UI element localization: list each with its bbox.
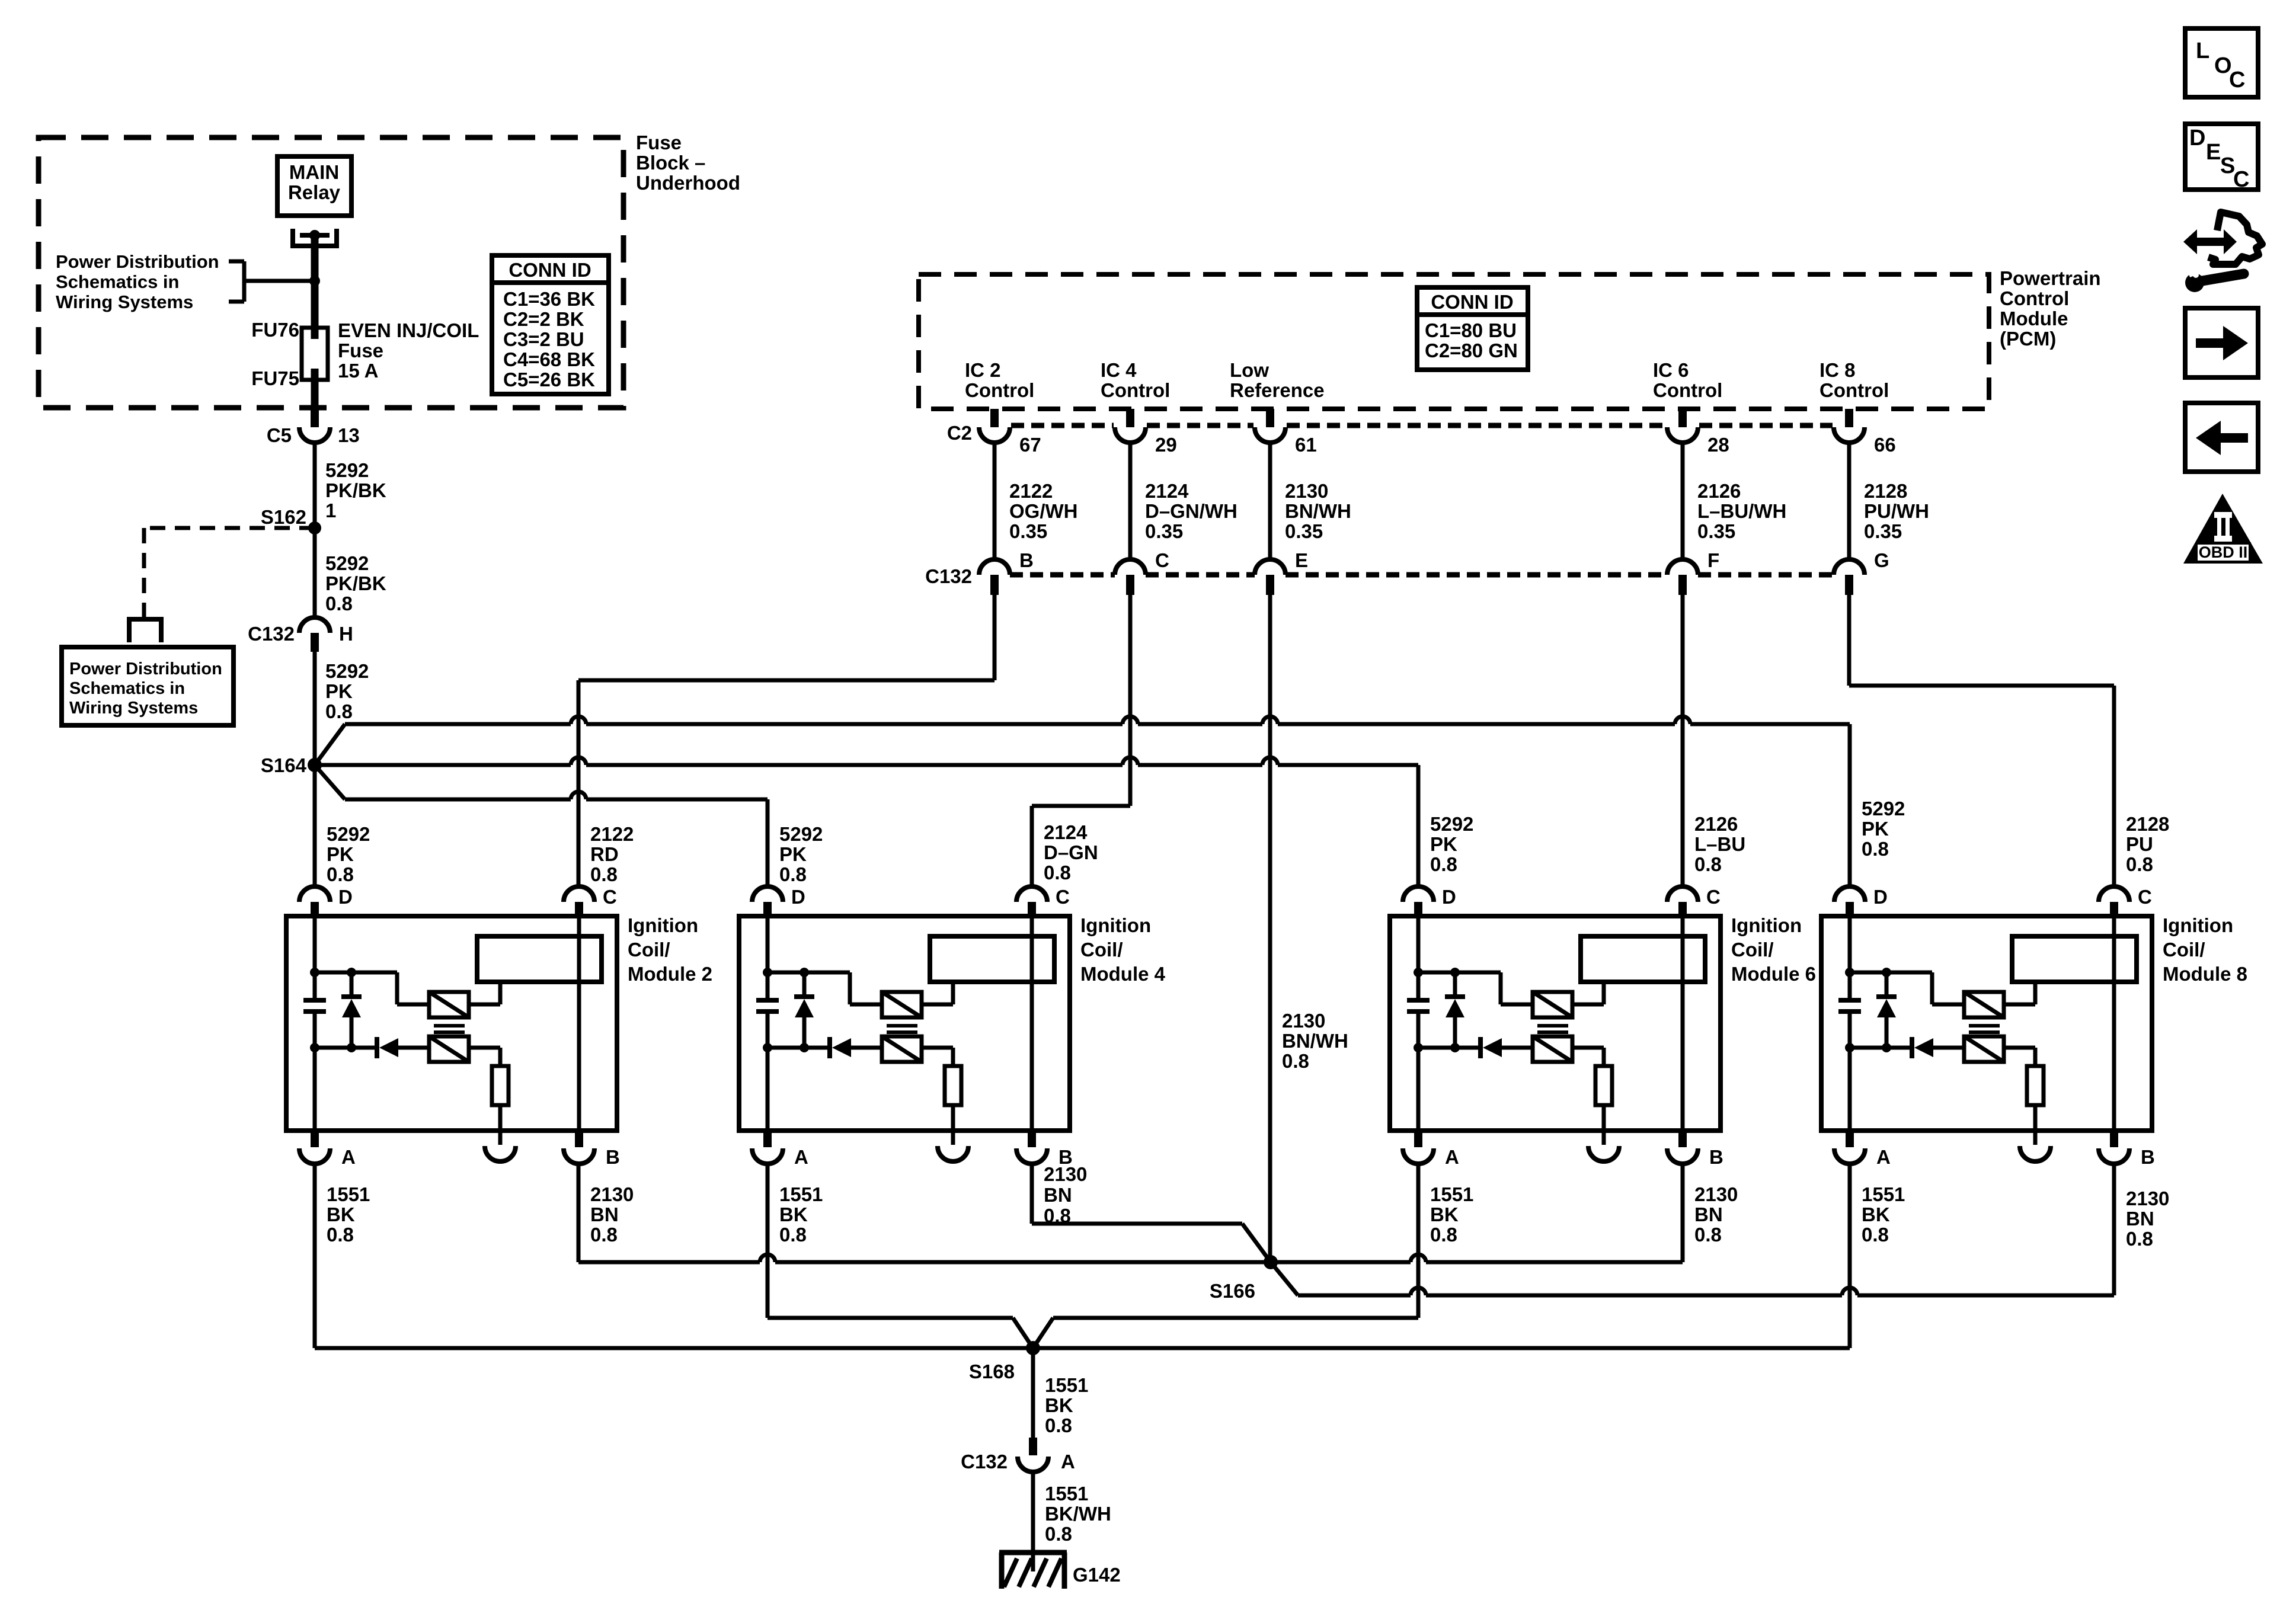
svg-text:0.8: 0.8 [1862, 838, 1889, 860]
svg-text:2126: 2126 [1697, 480, 1741, 502]
svg-text:0.8: 0.8 [325, 593, 353, 614]
wire module6 A to S168 [1033, 1164, 1418, 1348]
powertrain control module (dashed box) [919, 274, 1989, 409]
svg-text:1551: 1551 [327, 1183, 370, 1205]
svg-text:Wiring Systems: Wiring Systems [69, 699, 198, 718]
wire S168 to C132 A [1031, 1348, 1035, 1439]
svg-text:PK: PK [1862, 818, 1889, 840]
module 4 label [1080, 914, 1166, 985]
wire module8 A to S168 [1848, 1164, 1852, 1348]
coupler plates (module 8) [1969, 1026, 2000, 1032]
module 4 pin D connector [752, 886, 783, 918]
resistor tail (module 2) [498, 1105, 503, 1145]
module 8 pin C connector [2099, 886, 2129, 918]
svg-text:Coil/: Coil/ [628, 939, 670, 961]
wire to power distribution bracket [244, 279, 315, 283]
label 2128 PU 0.8 [2126, 813, 2169, 875]
svg-text:0.35: 0.35 [1145, 520, 1183, 542]
module 8 pin B connector [2099, 1131, 2129, 1164]
module 8 mid pin connector [2020, 1146, 2051, 1161]
module 2 pin B connector [564, 1131, 594, 1164]
wire module2 A to S168 [313, 1164, 317, 1348]
svg-text:BN: BN [1694, 1204, 1723, 1225]
svg-text:C2=2 BK: C2=2 BK [503, 308, 584, 330]
svg-text:Block –: Block – [636, 152, 705, 174]
svg-text:0.8: 0.8 [2126, 1228, 2153, 1250]
wire node2 with diode (module 8) [1850, 1037, 1964, 1058]
svg-text:B: B [2141, 1146, 2155, 1168]
label pin A (module 2) [341, 1146, 356, 1168]
wire 2126 L-BU/WH 0.35 [1681, 443, 1685, 559]
svg-text:2130: 2130 [1285, 480, 1328, 502]
svg-text:5292: 5292 [325, 552, 369, 574]
label C132 (H) [248, 623, 295, 645]
label pin A (module 6) [1445, 1146, 1459, 1168]
svg-text:FU75: FU75 [251, 367, 299, 389]
wire S166 to module6 B [1271, 1164, 1683, 1262]
label pin 28 [1707, 434, 1729, 456]
module 2 internal wire C-B [577, 918, 581, 1131]
label 2126 L-BU 0.8 [1694, 813, 1745, 875]
wire S166 to module8 B [1271, 1164, 2114, 1295]
svg-text:C4=68 BK: C4=68 BK [503, 348, 595, 370]
svg-text:0.8: 0.8 [327, 1224, 354, 1246]
module box Ignition Coil/Module 6 [1390, 916, 1721, 1131]
fuse value label [338, 319, 479, 382]
svg-text:0.8: 0.8 [1045, 1414, 1072, 1436]
module 4 internal wire D-A [766, 918, 770, 1131]
label 1551 BK 0.8 (module8) [1862, 1183, 1905, 1246]
svg-text:C: C [2138, 886, 2152, 908]
module 6 pin B connector [1667, 1131, 1698, 1164]
svg-text:(PCM): (PCM) [2000, 328, 2056, 350]
connector C2 pin 28 [1667, 409, 1698, 443]
svg-text:A: A [1876, 1146, 1891, 1168]
connector C132 pin C [1115, 559, 1146, 595]
svg-text:2130: 2130 [1044, 1163, 1087, 1185]
svg-text:Coil/: Coil/ [2163, 939, 2205, 961]
svg-text:CONN ID: CONN ID [509, 259, 591, 281]
svg-text:Control: Control [2000, 287, 2069, 309]
wire 2130 BN/WH 0.35 [1268, 443, 1272, 559]
zener diode (module 6) [1445, 972, 1465, 1048]
svg-text:Low: Low [1230, 359, 1269, 381]
svg-text:D–GN/WH: D–GN/WH [1145, 500, 1237, 522]
module box Ignition Coil/Module 8 [1821, 916, 2152, 1131]
svg-text:PU: PU [2126, 833, 2153, 855]
svg-text:1551: 1551 [1430, 1183, 1473, 1205]
svg-text:A: A [341, 1146, 356, 1168]
svg-text:S168: S168 [969, 1361, 1015, 1382]
label 5292 PK 0.8 (module6 D) [1430, 813, 1473, 875]
svg-text:A: A [1061, 1451, 1075, 1473]
connector C5 pin 13 (cup) [299, 427, 330, 443]
label IC 6 Control [1653, 359, 1722, 401]
svg-text:61: 61 [1295, 434, 1317, 456]
svg-text:C: C [603, 886, 617, 908]
svg-text:2122: 2122 [590, 823, 634, 845]
svg-text:Coil/: Coil/ [1080, 939, 1123, 961]
coupler plates (module 2) [434, 1026, 465, 1032]
svg-text:BK: BK [779, 1204, 808, 1225]
module 6 label [1731, 914, 1816, 985]
relay contact dot [309, 230, 320, 241]
svg-text:Wiring Systems: Wiring Systems [56, 292, 193, 312]
wire fuse to fuse block edge [311, 380, 319, 409]
optocoupler lower (module 2) [429, 1036, 469, 1062]
svg-text:BK: BK [1430, 1204, 1459, 1225]
svg-text:MAIN: MAIN [289, 161, 339, 183]
relay contact blade [300, 233, 330, 238]
label 2128 PU/WH 0.35 [1864, 480, 1929, 542]
svg-text:5292: 5292 [779, 823, 823, 845]
svg-text:PU/WH: PU/WH [1864, 500, 1929, 522]
wire optocoupler1 to coil (module 2) [469, 982, 500, 1004]
svg-text:2122: 2122 [1009, 480, 1053, 502]
label G142 [1073, 1564, 1121, 1586]
resistor tail (module 8) [2033, 1105, 2038, 1145]
label 5292 PK/BK 0.8 [325, 552, 386, 614]
svg-text:PK: PK [325, 680, 353, 702]
svg-text:1551: 1551 [1045, 1374, 1088, 1396]
connector C2 pin 29 [1115, 409, 1146, 443]
label S166 [1210, 1280, 1255, 1302]
svg-text:IC 8: IC 8 [1819, 359, 1856, 381]
svg-text:C: C [1706, 886, 1721, 908]
node junction below relay [309, 276, 320, 286]
wire optocoupler2 to resistor (module 8) [2004, 1048, 2035, 1066]
svg-text:C2: C2 [947, 422, 972, 444]
svg-text:1551: 1551 [1045, 1483, 1088, 1505]
label pin B (module 6) [1709, 1146, 1723, 1168]
svg-text:2128: 2128 [2126, 813, 2169, 835]
label pin B (module 4) [1059, 1146, 1073, 1168]
svg-text:0.8: 0.8 [1430, 853, 1457, 875]
module 4 pin A connector [752, 1131, 783, 1164]
label pin H [339, 623, 353, 645]
svg-text:0.8: 0.8 [1694, 1224, 1722, 1246]
svg-text:0.8: 0.8 [1430, 1224, 1457, 1246]
svg-text:0.8: 0.8 [1044, 1205, 1071, 1227]
svg-text:2130: 2130 [1694, 1183, 1738, 1205]
label FU75 [251, 367, 299, 389]
label IC 4 Control [1101, 359, 1170, 401]
connector C132 pin G [1834, 559, 1865, 595]
svg-text:Power Distribution: Power Distribution [56, 251, 219, 272]
optocoupler upper (module 8) [1964, 992, 2004, 1017]
label FU76 [251, 319, 299, 341]
svg-text:Fuse: Fuse [636, 132, 682, 153]
connector row C2 (dashed) [1011, 423, 1833, 428]
svg-text:Module: Module [2000, 308, 2068, 329]
module 4 mid pin connector [938, 1146, 968, 1161]
wire S164 lower branch to module4 pin D [315, 765, 768, 886]
svg-text:B: B [606, 1146, 620, 1168]
svg-text:BN: BN [2126, 1208, 2154, 1230]
svg-text:0.8: 0.8 [1044, 862, 1071, 884]
svg-text:0.8: 0.8 [779, 863, 807, 885]
svg-text:FU76: FU76 [251, 319, 299, 341]
PCM label [2000, 267, 2101, 350]
label 5292 PK 0.8 (upper) [325, 660, 369, 722]
zener diode (module 4) [794, 972, 814, 1048]
svg-text:BK/WH: BK/WH [1045, 1503, 1111, 1525]
svg-text:5292: 5292 [325, 660, 369, 682]
wire S162 to C132 H [313, 528, 317, 617]
label 5292 PK 0.8 (module2 D) [327, 823, 370, 885]
connector C5 stub [311, 408, 319, 427]
zener diode (module 8) [1876, 972, 1897, 1048]
S168 ground bus [315, 1346, 1850, 1350]
svg-text:C132: C132 [248, 623, 295, 645]
power distribution schematics box (left) [62, 647, 234, 725]
label 1551 BK 0.8 (module4) [779, 1183, 823, 1246]
wire node2 with diode (module 4) [768, 1037, 882, 1058]
optocoupler lower (module 6) [1533, 1036, 1572, 1062]
resistor tail (module 4) [951, 1105, 955, 1145]
svg-text:PK: PK [1430, 833, 1457, 855]
resistor tail (module 6) [1602, 1105, 1606, 1145]
label 2130 BN 0.8 (module2) [590, 1183, 634, 1246]
svg-text:5292: 5292 [325, 459, 369, 481]
wire optocoupler1 to coil (module 4) [922, 982, 953, 1004]
label pin D (module 2) [338, 886, 353, 908]
wire module4 B to S166 [1032, 1164, 1271, 1262]
svg-text:BK: BK [327, 1204, 355, 1225]
label pin A (C132) [1061, 1451, 1075, 1473]
icon back arrow box [2185, 403, 2258, 472]
svg-text:H: H [339, 623, 353, 645]
wire node2 with diode (module 6) [1418, 1037, 1533, 1058]
node dots (module 6) [1414, 968, 1460, 1052]
wire low reference (C132 E) to S166 [1268, 595, 1272, 1262]
label 1551 BK 0.8 (module6) [1430, 1183, 1473, 1246]
module 2 mid pin connector [485, 1146, 516, 1161]
module 4 pin B connector [1016, 1131, 1047, 1164]
svg-text:5292: 5292 [1430, 813, 1473, 835]
label C132 (row) [925, 565, 972, 587]
svg-text:PK: PK [779, 843, 807, 865]
svg-text:D: D [1873, 886, 1888, 908]
ignition coil winding (module 4) [930, 936, 1054, 982]
power distribution schematics note (top) [56, 251, 219, 312]
wire optocoupler1 to coil (module 6) [1572, 982, 1604, 1004]
svg-text:Ignition: Ignition [1080, 914, 1151, 936]
svg-text:BN/WH: BN/WH [1285, 500, 1351, 522]
ignition coil winding (module 8) [2012, 936, 2137, 982]
resistor (module 2) [492, 1066, 509, 1105]
wire 2122 OG/WH 0.35 [993, 443, 997, 559]
label 2130 BN 0.8 (module6) [1694, 1183, 1738, 1246]
wire 2128 PU/WH 0.35 [1847, 443, 1851, 559]
label pin B (module 8) [2141, 1146, 2155, 1168]
coupler plates (module 4) [887, 1026, 917, 1032]
wire module2 B to S166 [578, 1164, 1271, 1262]
optocoupler lower (module 4) [882, 1036, 922, 1062]
connector C132 pin B [979, 559, 1010, 595]
wire node1 to optocoupler1 (module 4) [768, 972, 882, 1004]
wire 5292 PK/BK 1 [313, 443, 317, 528]
label C132 (A) [961, 1451, 1008, 1473]
svg-text:G142: G142 [1073, 1564, 1121, 1586]
svg-text:13: 13 [338, 424, 360, 446]
svg-text:C132: C132 [925, 565, 972, 587]
svg-text:D: D [2189, 126, 2205, 151]
CONN ID table (fuse block) [492, 255, 609, 394]
svg-text:Underhood: Underhood [636, 172, 740, 194]
icon wrench [2185, 265, 2244, 292]
node dots (module 4) [763, 968, 809, 1052]
wire node1 to optocoupler1 (module 8) [1850, 972, 1964, 1004]
label 2124 D-GN 0.8 [1044, 821, 1098, 884]
label 5292 PK 0.8 (module8 D) [1862, 798, 1905, 860]
svg-text:Relay: Relay [288, 181, 341, 203]
svg-text:OBD II: OBD II [2199, 543, 2248, 561]
label pin G [1874, 549, 1889, 571]
svg-text:IC 4: IC 4 [1101, 359, 1137, 381]
svg-text:Control: Control [1819, 379, 1889, 401]
module 2 pin C connector [564, 886, 594, 918]
label 2122 OG/WH 0.35 [1009, 480, 1077, 542]
svg-text:BN/WH: BN/WH [1282, 1030, 1348, 1052]
label 2130 BN 0.8 (module8) [2126, 1188, 2169, 1250]
connector C132 pin F [1667, 559, 1698, 595]
relay contact socket [293, 229, 337, 246]
svg-text:0.8: 0.8 [590, 863, 618, 885]
module 2 pin D connector [299, 886, 330, 918]
svg-text:EVEN INJ/COIL: EVEN INJ/COIL [338, 319, 479, 341]
relay K: MAIN Relay box [277, 156, 351, 216]
svg-text:B: B [1019, 549, 1034, 571]
svg-text:0.35: 0.35 [1697, 520, 1735, 542]
fuse block - underhood (dashed box) [39, 137, 623, 408]
label 5292 PK/BK 1 [325, 459, 386, 521]
label pin E [1295, 549, 1308, 571]
label 2124 D-GN/WH 0.35 [1145, 480, 1237, 542]
wire optocoupler2 to resistor (module 2) [469, 1048, 500, 1066]
svg-text:BK: BK [1862, 1204, 1890, 1225]
label pin 61 [1295, 434, 1317, 456]
wire node1 to optocoupler1 (module 2) [315, 972, 429, 1004]
svg-text:Schematics in: Schematics in [69, 679, 185, 698]
icon LOC box [2185, 28, 2258, 97]
svg-text:1551: 1551 [1862, 1183, 1905, 1205]
splice S162 [308, 521, 321, 534]
module box Ignition Coil/Module 4 [739, 916, 1070, 1131]
connector C2 pin 67 [979, 409, 1010, 443]
label pin F [1707, 549, 1719, 571]
svg-text:C: C [1155, 549, 1169, 571]
wire 2124 D-GN/WH 0.35 [1128, 443, 1133, 559]
svg-text:CONN ID: CONN ID [1431, 291, 1513, 313]
svg-text:C1=80 BU: C1=80 BU [1425, 319, 1517, 341]
connector C132 pin H [299, 617, 330, 652]
ignition coil winding (module 6) [1581, 936, 1705, 982]
wire 1551 BK/WH 0.8 [1031, 1472, 1035, 1553]
svg-text:C: C [2229, 68, 2245, 92]
module 8 internal wire D-A [1848, 918, 1852, 1131]
resistor (module 8) [2027, 1066, 2044, 1105]
svg-text:0.35: 0.35 [1285, 520, 1323, 542]
svg-text:0.8: 0.8 [2126, 853, 2153, 875]
label Low Reference [1230, 359, 1325, 401]
label 2126 L-BU/WH 0.35 [1697, 480, 1786, 542]
svg-text:E: E [2206, 140, 2221, 165]
wire relay to junction [311, 235, 319, 281]
wire C132 B to module2 pin C [578, 595, 994, 886]
wire module4 A to S168 [768, 1164, 1033, 1348]
label IC 2 Control [965, 359, 1034, 401]
fuse block label [636, 132, 740, 194]
CONN ID table (PCM) [1417, 287, 1528, 370]
svg-text:2126: 2126 [1694, 813, 1738, 835]
wire S164 upper branch to module8 pin D [315, 716, 1850, 886]
svg-text:C: C [2233, 167, 2249, 192]
connector C132 pin E [1255, 559, 1285, 595]
svg-text:C5=26 BK: C5=26 BK [503, 369, 595, 391]
svg-text:Module 8: Module 8 [2163, 963, 2247, 985]
zener diode (module 2) [341, 972, 362, 1048]
svg-text:S166: S166 [1210, 1280, 1255, 1302]
module 8 pin D connector [1834, 886, 1865, 918]
module 6 internal wire D-A [1416, 918, 1421, 1131]
resistor (module 4) [945, 1066, 961, 1105]
svg-text:IC 2: IC 2 [965, 359, 1001, 381]
wire C132 H to S164 [313, 652, 317, 765]
module 8 pin A connector [1834, 1131, 1865, 1164]
module 6 pin D connector [1403, 886, 1434, 918]
svg-text:Module 2: Module 2 [628, 963, 712, 985]
fuse FU76/FU75 EVEN INJ/COIL [302, 328, 328, 380]
label C2 [947, 422, 972, 444]
svg-text:Fuse: Fuse [338, 340, 383, 361]
svg-text:0.35: 0.35 [1009, 520, 1047, 542]
optocoupler upper (module 2) [429, 992, 469, 1017]
svg-text:0.35: 0.35 [1864, 520, 1902, 542]
module 6 pin A connector [1403, 1131, 1434, 1164]
svg-text:A: A [1445, 1146, 1459, 1168]
label pin D (module 6) [1442, 886, 1456, 908]
svg-text:OG/WH: OG/WH [1009, 500, 1077, 522]
label 1551 BK 0.8 (module2) [327, 1183, 370, 1246]
bracket to power distribution schematics [229, 261, 244, 302]
module 6 internal wire C-B [1681, 918, 1685, 1131]
label 1551 BK 0.8 (S168) [1045, 1374, 1088, 1436]
svg-text:L–BU: L–BU [1694, 833, 1745, 855]
wire optocoupler2 to resistor (module 6) [1572, 1048, 1604, 1066]
svg-text:Control: Control [965, 379, 1034, 401]
label 2130 BN/WH 0.8 [1282, 1010, 1348, 1072]
label pin 67 [1019, 434, 1041, 456]
splice S168 [1026, 1341, 1040, 1355]
resistor (module 6) [1595, 1066, 1612, 1105]
coupler plates (module 6) [1537, 1026, 1568, 1032]
connector C132 pin A [1018, 1438, 1048, 1472]
icon vehicle schematic with double arrow [2183, 212, 2262, 264]
optocoupler upper (module 4) [882, 992, 922, 1017]
wire optocoupler2 to resistor (module 4) [922, 1048, 953, 1066]
icon forward arrow box [2185, 308, 2258, 377]
connector row C132 (dashed) [1010, 572, 1834, 578]
svg-text:IC 6: IC 6 [1653, 359, 1689, 381]
svg-text:0.8: 0.8 [1282, 1050, 1309, 1072]
icon DESC box [2185, 124, 2258, 192]
label pin C (module 4) [1056, 886, 1070, 908]
ground G142 [999, 1553, 1067, 1589]
svg-text:D: D [338, 886, 353, 908]
svg-text:B: B [1709, 1146, 1723, 1168]
svg-text:2124: 2124 [1145, 480, 1189, 502]
